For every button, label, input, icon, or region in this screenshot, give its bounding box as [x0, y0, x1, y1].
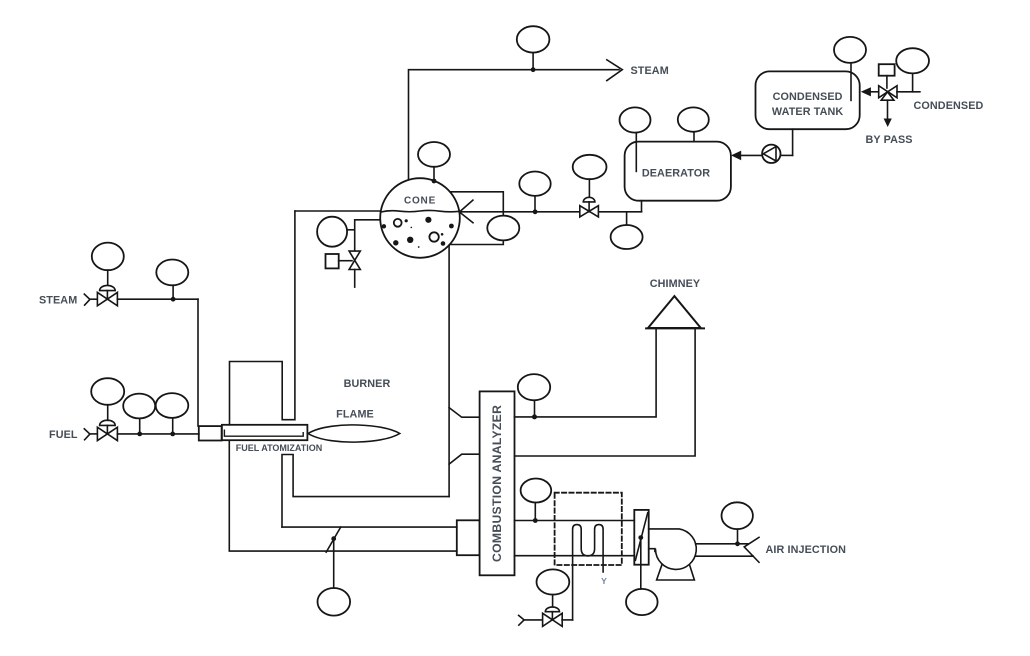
svg-text:CONDENSED: CONDENSED: [773, 91, 843, 103]
sight glass bubble: [487, 216, 519, 241]
label FUEL ATOMIZATION: [236, 443, 323, 453]
instrument square above valve: [879, 64, 895, 88]
flue lower line to chimney: [515, 328, 696, 456]
wire pump to tank drain: [780, 154, 792, 156]
main water line drum to deaerator: [460, 211, 642, 213]
feed arrow into deaerator: [731, 151, 741, 161]
fan inlet lower step: [649, 549, 655, 552]
flame shape: [308, 425, 400, 442]
duct from atomizer down to analyzer inlet: [229, 441, 456, 552]
svg-text:CHIMNEY: CHIMNEY: [650, 278, 701, 290]
bubbles inside drum: [382, 217, 454, 248]
U-tube sensor element: [573, 525, 604, 620]
instrument bubble on flue: [518, 374, 550, 414]
boiler drum CONE circle: [380, 178, 460, 258]
label FUEL: [49, 429, 78, 441]
svg-text:CONDENSED: CONDENSED: [914, 100, 984, 112]
instrument bubble on steam header: [517, 26, 550, 69]
instrument bubble below damper: [626, 538, 658, 616]
svg-text:FUEL: FUEL: [49, 429, 78, 441]
label BY PASS: [866, 134, 913, 146]
chevron mark at drum outlet: [459, 200, 473, 223]
instrument bubble below duct: [318, 539, 351, 616]
label STEAM top: [631, 65, 669, 77]
instrument bubble below main line: [611, 212, 643, 249]
atomizer coupler block: [199, 426, 222, 440]
svg-text:FLAME: FLAME: [336, 409, 374, 421]
deaerator drain pipe to main line: [641, 201, 643, 211]
svg-text:WATER TANK: WATER TANK: [772, 106, 843, 118]
label AIR INJECTION: [766, 544, 847, 556]
air damper D1: [634, 510, 648, 565]
flue upper line to chimney: [515, 328, 657, 417]
wire valve to condensed inlet: [897, 91, 920, 93]
wire V6 to U-tube leg: [562, 619, 573, 621]
svg-text:FUEL ATOMIZATION: FUEL ATOMIZATION: [236, 443, 323, 453]
label STEAM left: [39, 294, 77, 306]
junction dot on drum top: [432, 179, 437, 184]
instrument bubble above main line: [519, 172, 550, 211]
COMBUSTION ANALYZER body: [480, 391, 515, 575]
analyzer upper funnel tap: [449, 408, 480, 418]
burner enclosure left wall with gun mount: [230, 211, 295, 425]
svg-text:BY PASS: BY PASS: [866, 134, 913, 146]
junction dot on main line: [533, 209, 538, 214]
fan outlet duct upper: [696, 543, 748, 545]
DEAERATOR vessel: [625, 142, 731, 201]
fuel valve V5 with dome: [97, 427, 117, 440]
instrument bubble above V5: [91, 378, 124, 420]
chimney cap triangle: [646, 296, 704, 328]
instrument bubble above V4: [92, 243, 124, 286]
instrument bubble above CV1: [573, 155, 607, 196]
flue gas damper diagonal: [326, 527, 341, 552]
control valve CV1 with dome actuator: [580, 206, 599, 217]
wire arrow to pump: [741, 154, 762, 156]
junction dot steam supply: [171, 297, 176, 302]
fan stand: [657, 565, 695, 580]
steam supply chevron: [84, 294, 97, 305]
analyzer outlet duct upper: [515, 520, 635, 522]
svg-text:STEAM: STEAM: [39, 294, 77, 306]
blowdown instrument bubble: [317, 217, 355, 247]
label BURNER: [344, 378, 391, 390]
instrument square on blowdown: [326, 254, 353, 268]
water line inside drum: [381, 210, 460, 212]
label CONDENSED inlet: [914, 100, 984, 112]
svg-text:AIR INJECTION: AIR INJECTION: [766, 544, 847, 556]
instrument bubble above V6: [537, 569, 570, 607]
fuel chevron: [84, 429, 97, 440]
instrument bubble on outlet duct: [521, 479, 552, 519]
svg-text:BURNER: BURNER: [344, 378, 391, 390]
sample valve V6 with dome: [543, 613, 563, 626]
label FLAME: [336, 409, 374, 421]
duct upper line to analyzer inlet: [282, 526, 457, 528]
analyzer outlet duct lower: [515, 555, 635, 557]
instrument bubble fuel 2: [156, 393, 189, 431]
steam outlet open arrow: [607, 60, 623, 81]
blowdown tail wire: [354, 270, 356, 288]
burner right wall: [448, 245, 450, 496]
instrument bubble condensed inlet: [896, 48, 929, 92]
junction dot on flue: [532, 414, 537, 419]
label COMBUSTION ANALYZER: [490, 405, 504, 562]
blowdown vertical valve V1: [349, 251, 360, 269]
node junction dot on steam header: [531, 67, 536, 72]
junction dot on fan outlet: [735, 541, 740, 546]
bypass stem and arrow: [884, 100, 892, 127]
instrument bubble above deaerator left: [620, 107, 651, 171]
label CONE: [404, 196, 436, 207]
CONDENSED WATER TANK vessel: [756, 71, 860, 129]
instrument bubble above deaerator right: [678, 107, 709, 141]
condensed tank drain pipe: [792, 129, 794, 155]
fuel atomization barrel: [222, 425, 308, 440]
steam supply wire: [117, 298, 198, 300]
svg-text:Y: Y: [601, 576, 607, 586]
svg-text:DEAERATOR: DEAERATOR: [642, 168, 710, 180]
junction dot on damper: [331, 536, 336, 541]
instrument bubble above drum: [418, 142, 450, 181]
wire steam header from drum top to steam outlet: [409, 70, 620, 180]
instrument bubble on steam supply: [156, 260, 188, 298]
junction dot on outlet duct: [533, 518, 538, 523]
pump P1: [762, 145, 780, 163]
label Y: [601, 576, 607, 586]
steam supply downcomer to atomizer: [197, 299, 199, 426]
steam supply valve V4 with dome: [97, 292, 117, 305]
svg-text:COMBUSTION ANALYZER: COMBUSTION ANALYZER: [490, 405, 504, 562]
label DEAERATOR: [642, 168, 710, 180]
junction dot on damper D1: [638, 535, 643, 540]
pipe from drum to burner left wall: [295, 210, 381, 212]
sample chevron bottom: [519, 615, 543, 625]
svg-text:STEAM: STEAM: [631, 65, 669, 77]
feed arrow into tank: [861, 87, 879, 96]
svg-text:CONE: CONE: [404, 196, 436, 207]
fan blower FD volute: [649, 529, 697, 570]
analyzer lower funnel tap: [449, 454, 480, 464]
instrument bubble above tank: [834, 37, 866, 101]
burner lower left wall: [282, 455, 449, 528]
instrument bubble fuel 1: [123, 394, 155, 431]
fuel wire to atomizer: [117, 433, 198, 435]
label CONDENSED WATER TANK: [772, 91, 843, 118]
junction dots on fuel wire: [137, 432, 175, 437]
label CHIMNEY: [650, 278, 701, 290]
instrument bubble on fan outlet: [722, 502, 753, 542]
air injection break chevron: [744, 537, 759, 562]
three-way valve V3: [879, 86, 897, 101]
analyzer inlet box: [457, 520, 480, 555]
fan outlet duct lower: [695, 555, 753, 557]
blowdown pipe from drum: [355, 220, 380, 251]
level gauge rectangle on drum right: [450, 192, 503, 245]
dashed sensor enclosure: [555, 493, 622, 565]
